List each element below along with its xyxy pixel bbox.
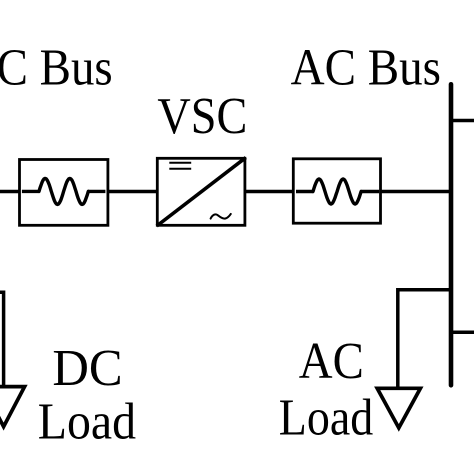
svg-text:Load: Load (38, 392, 136, 450)
wire: AC bus upper right branch (451, 119, 474, 123)
AC bus bar (449, 84, 454, 385)
svg-text:Load: Load (279, 388, 373, 446)
filter L1 sine element (39, 178, 88, 204)
converter U1 diagonal (157, 158, 246, 226)
wire: DC bus to VSC main horizontal run (0, 190, 452, 194)
filter L1 lead line (22, 190, 106, 193)
svg-text:DC Bus: DC Bus (0, 39, 113, 97)
svg-text:AC Bus: AC Bus (291, 39, 441, 97)
wire: DC load branch (0, 292, 4, 387)
svg-text:VSC: VSC (157, 87, 247, 145)
filter L2 (AC-side filter box) (293, 159, 380, 223)
converter U1 DC symbol "=" (169, 162, 191, 164)
converter U1 VSC box (157, 158, 245, 225)
svg-text:AC: AC (299, 332, 364, 390)
filter L2 lead line (296, 190, 379, 193)
filter L1 (DC-side filter box) (20, 160, 108, 226)
AC load arrow (377, 388, 420, 428)
converter U1 AC symbol "~" (211, 214, 231, 219)
DC load arrow (0, 387, 25, 427)
filter L2 sine element (313, 179, 361, 204)
svg-text:DC: DC (52, 339, 122, 397)
wire: AC bus lower right branch (451, 331, 474, 335)
wire: AC load branch (398, 290, 451, 387)
